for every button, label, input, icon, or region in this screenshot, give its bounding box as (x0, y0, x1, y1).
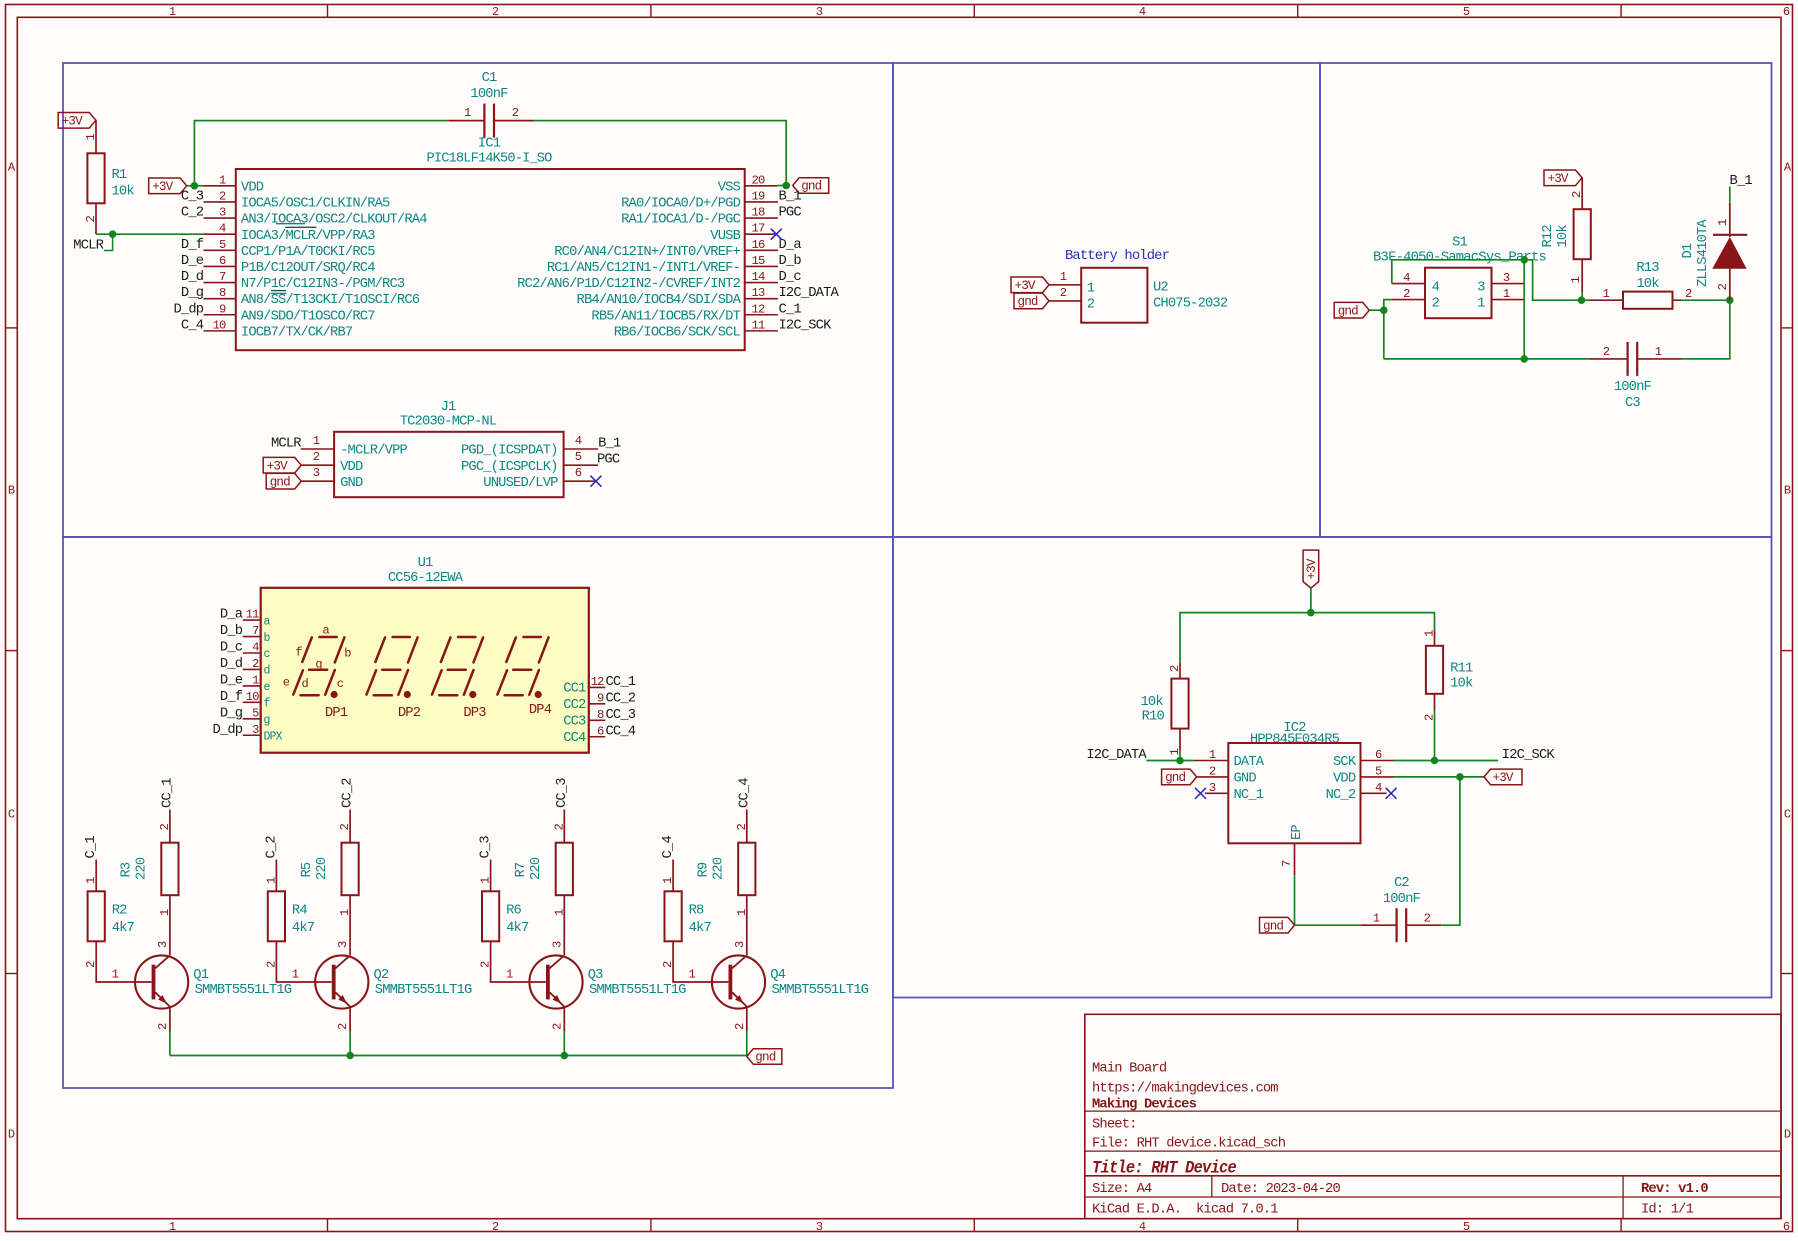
IC IC2 HPP845E034R5 (1228, 721, 1360, 843)
svg-text:Main Board: Main Board (1092, 1061, 1167, 1077)
svg-text:Id: 1/1: Id: 1/1 (1641, 1202, 1694, 1218)
svg-text:1: 1 (252, 673, 259, 687)
svg-text:R11: R11 (1450, 662, 1473, 677)
svg-text:R10: R10 (1142, 710, 1165, 725)
svg-text:R8: R8 (689, 904, 704, 919)
svg-text:CC1: CC1 (563, 682, 586, 697)
transistor Q4 (712, 941, 869, 1056)
svg-text:2: 2 (1685, 287, 1692, 301)
svg-text:VDD: VDD (340, 460, 363, 475)
svg-text:e: e (264, 681, 271, 694)
connector J1 TC2030-MCP-NL (334, 400, 563, 497)
svg-text:4: 4 (1432, 281, 1440, 296)
resistor R9 (697, 824, 756, 956)
power +3V (top left) (58, 113, 96, 129)
section box sensor (893, 537, 1772, 998)
svg-text:PGD_(ICSPDAT): PGD_(ICSPDAT) (461, 443, 558, 459)
svg-text:R6: R6 (506, 904, 521, 919)
wire S1 pin4 loop (1392, 260, 1524, 284)
svg-text:HPP845E034R5: HPP845E034R5 (1250, 733, 1340, 748)
svg-text:2: 2 (735, 824, 749, 831)
svg-text:e: e (283, 675, 290, 689)
resistor R10 (1141, 665, 1189, 761)
svg-text:a: a (323, 624, 330, 638)
svg-text:D_b: D_b (220, 623, 243, 639)
svg-text:2: 2 (336, 1023, 350, 1030)
svg-text:2: 2 (492, 5, 499, 19)
IC2 pin4 NC (1361, 781, 1387, 795)
svg-text:1: 1 (506, 968, 513, 982)
svg-text:g: g (315, 658, 322, 672)
svg-text:IOCA3/MCLR/VPP/RA3: IOCA3/MCLR/VPP/RA3 (241, 228, 375, 244)
svg-text:6: 6 (597, 724, 604, 738)
IC2 pin5 VDD (1361, 764, 1394, 778)
power gnd (S1) (1334, 302, 1369, 318)
wire gnd to C2 (1295, 924, 1361, 926)
svg-text:D_b: D_b (779, 253, 802, 269)
svg-text:6: 6 (1783, 5, 1790, 19)
svg-text:VDD: VDD (241, 180, 264, 195)
svg-text:1: 1 (1503, 287, 1510, 301)
junction DATA node (1176, 757, 1184, 765)
svg-text:CC_3: CC_3 (606, 708, 636, 723)
power gnd (IC2) (1162, 764, 1229, 785)
label B_1 (diode) (1730, 174, 1753, 203)
svg-text:D_g: D_g (220, 706, 243, 721)
junction VDD (191, 182, 199, 190)
svg-text:CC_1: CC_1 (161, 778, 176, 808)
svg-text:PGC: PGC (779, 206, 802, 221)
IC1 pin4 MCLR overline (285, 226, 316, 228)
svg-text:AN8/SS/T13CKI/T1OSCI/RC6: AN8/SS/T13CKI/T1OSCI/RC6 (241, 292, 420, 308)
section box switch (1320, 63, 1772, 537)
power +3V (R12) (1544, 170, 1582, 186)
svg-text:220: 220 (529, 857, 544, 880)
svg-text:R7: R7 (514, 862, 529, 877)
svg-text:2: 2 (550, 1023, 564, 1030)
IC1 left pins (173, 173, 427, 340)
svg-text:Date: 2023-04-20: Date: 2023-04-20 (1221, 1182, 1340, 1197)
svg-text:C_4: C_4 (181, 318, 204, 333)
svg-text:2: 2 (158, 824, 172, 831)
diode D1 ZLLS410TA (1681, 203, 1747, 301)
svg-text:R3: R3 (120, 862, 135, 877)
svg-text:g: g (264, 714, 270, 727)
label C_2 (264, 836, 279, 892)
svg-text:4: 4 (575, 434, 582, 448)
junction VDD C2 (1456, 773, 1464, 781)
svg-text:D_f: D_f (220, 689, 243, 705)
svg-text:NC_1: NC_1 (1234, 788, 1264, 803)
svg-text:D_f: D_f (181, 237, 204, 253)
svg-text:R13: R13 (1636, 261, 1659, 276)
resistor R5 (300, 824, 359, 956)
label C_3 (479, 836, 494, 892)
svg-text:d: d (302, 677, 309, 691)
power +3V (VDD) (149, 178, 187, 194)
svg-text:4k7: 4k7 (112, 920, 135, 936)
svg-text:1: 1 (84, 877, 98, 884)
svg-text:b: b (344, 647, 351, 661)
capacitor C3 (1589, 342, 1681, 411)
svg-text:1: 1 (1087, 282, 1095, 297)
svg-text:+3V: +3V (1305, 558, 1319, 579)
svg-text:D_c: D_c (779, 270, 802, 285)
svg-text:+3V: +3V (267, 459, 288, 473)
svg-text:3: 3 (336, 941, 350, 948)
svg-text:EP: EP (1290, 825, 1305, 840)
svg-text:c: c (264, 648, 271, 661)
svg-text:P1B/C12OUT/SRQ/RC4: P1B/C12OUT/SRQ/RC4 (241, 260, 375, 276)
wire SCK net (1394, 760, 1499, 762)
svg-text:2: 2 (552, 824, 566, 831)
power gnd (C2) (1260, 917, 1295, 933)
svg-text:Sheet:: Sheet: (1092, 1117, 1137, 1133)
label CC_1 (161, 778, 176, 843)
IC1 pin3 IOCA3 marker line (276, 223, 305, 225)
svg-text:10k: 10k (1636, 276, 1659, 292)
svg-text:2: 2 (1087, 298, 1095, 313)
svg-text:7: 7 (252, 624, 259, 638)
svg-text:2: 2 (733, 1023, 747, 1030)
svg-text:B_1: B_1 (779, 189, 802, 204)
svg-text:3: 3 (733, 941, 747, 948)
svg-text:gnd: gnd (1338, 304, 1358, 318)
svg-text:5: 5 (1463, 5, 1470, 19)
svg-text:SMMBT5551LT1G: SMMBT5551LT1G (375, 983, 472, 998)
svg-text:5: 5 (1463, 1220, 1470, 1234)
junction R12 node (1578, 296, 1586, 304)
svg-text:gnd: gnd (755, 1051, 775, 1065)
svg-text:2: 2 (1209, 764, 1216, 778)
svg-text:C_1: C_1 (779, 302, 802, 317)
svg-text:VSS: VSS (718, 180, 741, 195)
svg-text:B3F-4050-SamacSys_Parts: B3F-4050-SamacSys_Parts (1373, 251, 1547, 266)
svg-text:d: d (264, 665, 270, 678)
svg-text:R4: R4 (292, 904, 307, 919)
junction S1 bottom (1520, 355, 1528, 363)
label CC_3 (555, 778, 570, 843)
svg-text:10k: 10k (1555, 225, 1571, 248)
junction S1 gnd (1380, 306, 1388, 314)
svg-text:4k7: 4k7 (506, 920, 529, 936)
svg-text:3: 3 (550, 941, 564, 948)
svg-text:3: 3 (1477, 281, 1485, 296)
S1 pin2 (1392, 287, 1425, 301)
svg-text:220: 220 (315, 857, 330, 880)
svg-text:2: 2 (1603, 345, 1610, 359)
svg-text:b: b (264, 632, 271, 645)
svg-text:Size: A4: Size: A4 (1092, 1181, 1152, 1197)
svg-text:2: 2 (252, 657, 259, 671)
svg-text:CC_3: CC_3 (555, 778, 570, 808)
svg-text:GND: GND (340, 476, 363, 491)
svg-text:RC2/AN6/P1D/C12IN2-/CVREF/INT2: RC2/AN6/P1D/C12IN2-/CVREF/INT2 (517, 276, 740, 292)
svg-text:D_a: D_a (779, 238, 802, 253)
svg-text:C_3: C_3 (181, 189, 204, 204)
power +3V (J1) (263, 450, 363, 475)
wire bottom S1 net (1384, 310, 1590, 359)
resistor R11 (1423, 630, 1473, 761)
svg-text:C: C (1784, 808, 1791, 822)
IC1 pin8 SS overline (271, 292, 287, 294)
svg-text:RC1/AN5/C12IN1-/INT1/VREF-: RC1/AN5/C12IN1-/INT1/VREF- (547, 260, 740, 276)
svg-text:R9: R9 (697, 862, 712, 877)
no-connect VUSB pin17 (771, 229, 782, 240)
svg-text:1: 1 (1655, 345, 1662, 359)
svg-text:2: 2 (1716, 284, 1730, 291)
svg-text:I2C_DATA: I2C_DATA (1086, 748, 1147, 763)
no-connect NC_2 (1386, 788, 1397, 799)
svg-text:+3V: +3V (1548, 172, 1569, 186)
svg-text:VUSB: VUSB (710, 229, 740, 244)
svg-text:C_1: C_1 (84, 836, 99, 859)
svg-text:C_2: C_2 (181, 206, 204, 221)
svg-text:C_3: C_3 (479, 836, 494, 859)
section box top-left (63, 63, 893, 537)
svg-text:4: 4 (1139, 1220, 1146, 1234)
svg-text:3: 3 (313, 466, 320, 480)
svg-text:MCLR: MCLR (73, 239, 103, 254)
capacitor C2 (1361, 876, 1442, 942)
junction D1 anode (1726, 296, 1734, 304)
svg-text:C2: C2 (1394, 876, 1409, 891)
svg-text:CC_1: CC_1 (606, 675, 636, 690)
svg-text:1: 1 (1373, 912, 1380, 926)
junction VSS (782, 182, 790, 190)
svg-text:3: 3 (816, 1220, 823, 1234)
transistor Q2 (315, 941, 472, 1056)
svg-text:1: 1 (1209, 748, 1216, 762)
label I2C_DATA (sensor) (1086, 748, 1193, 763)
svg-text:D_e: D_e (181, 254, 204, 269)
section box battery (893, 63, 1320, 537)
svg-text:1: 1 (1603, 287, 1610, 301)
svg-text:ZLLS410TA: ZLLS410TA (1696, 219, 1711, 287)
svg-text:DPX: DPX (264, 730, 283, 743)
resistor R4 (264, 877, 331, 982)
svg-text:CC56-12EWA: CC56-12EWA (388, 571, 464, 586)
label C_4 (661, 836, 676, 892)
svg-text:J1: J1 (441, 400, 456, 415)
svg-text:R1: R1 (112, 168, 127, 183)
wire sensor +3V rail (1180, 613, 1435, 679)
U1 digit 2 (367, 637, 421, 721)
svg-text:5: 5 (1375, 764, 1382, 778)
svg-text:PGC: PGC (597, 453, 620, 468)
svg-text:4: 4 (1139, 5, 1146, 19)
svg-text:D_a: D_a (220, 608, 243, 623)
wire R12 node to R13 (1582, 299, 1590, 301)
svg-text:I2C_DATA: I2C_DATA (779, 286, 840, 301)
svg-text:10k: 10k (1141, 694, 1164, 710)
svg-text:C1: C1 (482, 71, 497, 86)
svg-text:https://makingdevices.com: https://makingdevices.com (1092, 1081, 1278, 1097)
svg-text:gnd: gnd (801, 180, 821, 194)
svg-text:100nF: 100nF (1383, 892, 1421, 907)
svg-text:B: B (1784, 484, 1791, 498)
J1 pin5 PGC (461, 450, 620, 475)
U1 left pins (212, 608, 282, 744)
label CC_2 (341, 778, 356, 843)
svg-text:GND: GND (1234, 772, 1257, 787)
wire emitter gnd bus (170, 1055, 747, 1057)
wire VDD rail (187, 121, 787, 186)
svg-text:IOCA5/OSC1/CLKIN/RA5: IOCA5/OSC1/CLKIN/RA5 (241, 196, 390, 212)
svg-text:D_dp: D_dp (212, 722, 242, 738)
svg-text:1: 1 (112, 968, 119, 982)
IC U3 PIC18LF14K50 (236, 137, 745, 351)
svg-text:DP3: DP3 (463, 706, 486, 721)
S1 pin4 (1392, 271, 1425, 285)
svg-text:CC_2: CC_2 (341, 778, 356, 808)
resistor R7 (514, 824, 573, 956)
svg-text:Q4: Q4 (770, 968, 785, 983)
svg-text:c: c (337, 677, 344, 691)
svg-text:N7/P1C/C12IN3-/PGM/RC3: N7/P1C/C12IN3-/PGM/RC3 (241, 276, 405, 292)
IC1 right pins (517, 173, 839, 340)
svg-text:AN9/SDO/T1OSCO/RC7: AN9/SDO/T1OSCO/RC7 (241, 308, 375, 324)
power +3V (sensor) (1303, 550, 1319, 588)
S1 pin3 (1492, 271, 1525, 285)
IC2 pin1 (1193, 748, 1228, 762)
wire C3 to D1 node (1681, 300, 1730, 359)
svg-text:PGC_(ICSPCLK): PGC_(ICSPCLK) (461, 459, 558, 475)
svg-text:RA1/IOCA1/D-/PGC: RA1/IOCA1/D-/PGC (621, 212, 740, 228)
IC2 pin3 NC (1205, 781, 1228, 795)
svg-text:1: 1 (169, 1220, 176, 1234)
svg-text:3: 3 (252, 723, 259, 737)
svg-text:3: 3 (156, 941, 170, 948)
power gnd (VSS) (793, 178, 829, 194)
svg-text:C_2: C_2 (264, 836, 279, 859)
display U1 CC56-12EWA (261, 556, 589, 753)
svg-text:S1: S1 (1452, 236, 1467, 251)
svg-text:CCP1/P1A/T0CKI/RC5: CCP1/P1A/T0CKI/RC5 (241, 244, 375, 260)
svg-text:DP2: DP2 (398, 706, 421, 721)
svg-text:PIC18LF14K50-I_SO: PIC18LF14K50-I_SO (427, 152, 553, 167)
svg-text:RB4/AN10/IOCB4/SDI/SDA: RB4/AN10/IOCB4/SDI/SDA (577, 292, 742, 308)
svg-text:CC3: CC3 (563, 715, 586, 730)
svg-text:2: 2 (1168, 665, 1182, 672)
resistor R12 (1541, 191, 1591, 300)
wire +3V to R12 (1581, 178, 1583, 209)
svg-text:1: 1 (84, 134, 98, 141)
power gnd (emitter bus) (747, 1049, 782, 1065)
svg-text:1: 1 (661, 877, 675, 884)
svg-text:R12: R12 (1541, 225, 1556, 248)
junction MCLR (109, 230, 117, 238)
J1 pin6 unused (483, 466, 596, 491)
wire VDD net (1394, 776, 1485, 778)
svg-text:1: 1 (1423, 630, 1437, 637)
no-connect J1 pin6 (590, 476, 601, 487)
svg-text:C_4: C_4 (661, 836, 676, 859)
svg-text:a: a (264, 615, 271, 628)
svg-text:Battery holder: Battery holder (1065, 248, 1170, 264)
svg-text:10k: 10k (112, 184, 135, 200)
capacitor C1 (448, 71, 533, 138)
power +3V (battery) (1011, 270, 1081, 293)
svg-text:R5: R5 (300, 862, 315, 877)
svg-text:B_1: B_1 (1730, 174, 1753, 189)
svg-text:9: 9 (597, 691, 604, 705)
battery U2 CH075-2032 (1081, 268, 1228, 323)
wire S1 to R12 node (1524, 260, 1581, 300)
section box bottom-left (63, 537, 893, 1088)
svg-text:+3V: +3V (1015, 279, 1036, 293)
svg-text:220: 220 (712, 857, 727, 880)
wire C2 to VDD (1441, 777, 1460, 925)
svg-text:8: 8 (597, 708, 604, 722)
svg-text:CC_2: CC_2 (606, 691, 636, 706)
svg-text:D_d: D_d (181, 269, 204, 285)
svg-text:DATA: DATA (1234, 755, 1265, 770)
junction SCK (1431, 757, 1439, 765)
power gnd (J1) (266, 466, 363, 491)
svg-text:220: 220 (135, 857, 150, 880)
power gnd (battery) (1014, 286, 1081, 309)
junction Q3 emitter (561, 1052, 569, 1060)
label MCLR (73, 234, 112, 253)
svg-text:+3V: +3V (152, 180, 173, 194)
svg-text:R2: R2 (112, 904, 127, 919)
svg-text:Q1: Q1 (193, 968, 208, 983)
svg-text:1: 1 (479, 877, 493, 884)
svg-text:gnd: gnd (1263, 919, 1283, 933)
J1 pin4 B_1 (461, 434, 621, 459)
wire MCLR net (96, 233, 204, 235)
svg-text:2: 2 (156, 1023, 170, 1030)
svg-text:gnd: gnd (270, 475, 290, 489)
label CC_4 (737, 778, 752, 843)
svg-text:4: 4 (1375, 781, 1382, 795)
svg-text:11: 11 (246, 608, 259, 622)
svg-text:C3: C3 (1625, 396, 1640, 411)
svg-text:D_e: D_e (220, 673, 243, 688)
svg-text:D_d: D_d (220, 656, 243, 672)
svg-text:100nF: 100nF (1614, 380, 1652, 395)
svg-text:3: 3 (1209, 781, 1216, 795)
svg-text:gnd: gnd (1165, 771, 1185, 785)
svg-text:D1: D1 (1681, 243, 1696, 258)
svg-text:6: 6 (1375, 748, 1382, 762)
svg-text:2: 2 (313, 450, 320, 464)
svg-text:1: 1 (292, 968, 299, 982)
svg-text:f: f (295, 646, 302, 660)
svg-text:Q2: Q2 (374, 968, 389, 983)
svg-text:1: 1 (689, 968, 696, 982)
svg-text:7: 7 (1280, 860, 1294, 867)
wire +3V to R1 (95, 120, 97, 153)
svg-text:Making Devices: Making Devices (1092, 1097, 1197, 1113)
svg-text:RC0/AN4/C12IN+/INT0/VREF+: RC0/AN4/C12IN+/INT0/VREF+ (554, 244, 740, 260)
svg-text:IOCB7/TX/CK/RB7: IOCB7/TX/CK/RB7 (241, 324, 353, 340)
U1 right pins (563, 675, 636, 746)
junction +3V rail (1307, 609, 1315, 617)
svg-text:Rev: v1.0: Rev: v1.0 (1641, 1182, 1708, 1197)
svg-text:2: 2 (1403, 287, 1410, 301)
svg-text:C: C (8, 808, 15, 822)
svg-text:1: 1 (169, 5, 176, 19)
svg-text:4: 4 (1403, 271, 1410, 285)
svg-text:I2C_SCK: I2C_SCK (779, 318, 833, 333)
resistor R13 (1589, 261, 1692, 309)
svg-text:U1: U1 (418, 556, 433, 571)
svg-text:5: 5 (252, 706, 259, 720)
svg-text:Title: RHT Device: Title: RHT Device (1092, 1159, 1236, 1179)
svg-text:KiCad E.D.A. kicad 7.0.1: KiCad E.D.A. kicad 7.0.1 (1092, 1202, 1278, 1218)
